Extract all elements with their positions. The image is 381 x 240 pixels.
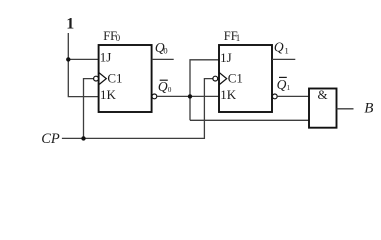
wire: Q0bar branch down to AND gate lower input xyxy=(190,119,309,121)
svg-text:1: 1 xyxy=(66,16,74,33)
wire: constant-1 vertical down to 1K row, then into FF0 1K xyxy=(68,33,98,97)
svg-text:1K: 1K xyxy=(100,87,117,102)
wire: AND output stub xyxy=(337,108,354,110)
svg-text:Q: Q xyxy=(274,40,284,55)
svg-text:C1: C1 xyxy=(228,71,243,86)
svg-text:0: 0 xyxy=(168,86,172,94)
svg-text:0: 0 xyxy=(116,33,121,43)
clock edge triangle (FF0) xyxy=(99,72,107,85)
junction dot on CP line xyxy=(81,136,85,140)
clock inversion bubble (FF1 C1) xyxy=(213,76,218,81)
wire: FF0 C1 branch from CP xyxy=(84,79,94,139)
svg-text:1: 1 xyxy=(285,45,289,55)
junction dot on Q0bar net xyxy=(188,94,192,98)
output bubble (FF1 Qbar) xyxy=(272,94,277,99)
svg-text:1: 1 xyxy=(236,33,241,43)
svg-text:0: 0 xyxy=(163,46,167,56)
flip-flop FF0 box xyxy=(99,45,152,112)
wire: Q1bar to AND gate upper input xyxy=(277,95,309,97)
svg-text:C1: C1 xyxy=(107,71,122,86)
AND gate U1 box xyxy=(309,89,337,128)
svg-text:&: & xyxy=(318,87,328,102)
clock edge triangle (FF1) xyxy=(219,72,227,85)
wire: Q0bar branch to FF1 1J xyxy=(190,60,219,121)
svg-text:1J: 1J xyxy=(100,50,112,65)
svg-text:1J: 1J xyxy=(220,50,232,65)
svg-text:Q: Q xyxy=(158,79,168,94)
output bubble (FF0 Qbar) xyxy=(152,94,157,99)
svg-text:1: 1 xyxy=(287,84,291,92)
svg-text:1K: 1K xyxy=(220,87,237,102)
junction dot at 1J branch xyxy=(66,57,70,61)
wire: Q0bar to FF1 1K xyxy=(157,95,219,97)
wire: Q0 output stub xyxy=(152,58,174,60)
wire: Q1 output stub xyxy=(272,58,295,60)
clock inversion bubble (FF0 C1) xyxy=(94,76,99,81)
wire: branch to FF0 1J input xyxy=(68,58,98,60)
svg-text:CP: CP xyxy=(41,131,60,147)
svg-text:Q: Q xyxy=(277,77,287,92)
wire: CP line right, up to FF1 C1 input xyxy=(62,79,213,139)
flip-flop FF1 box xyxy=(219,45,272,112)
svg-text:B: B xyxy=(364,101,373,117)
